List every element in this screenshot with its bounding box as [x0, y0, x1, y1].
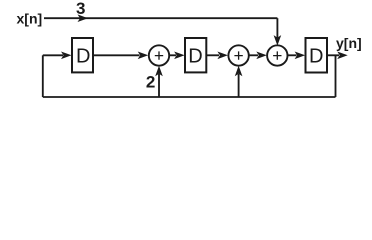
arrowhead into adder U1 bottom [155, 66, 163, 77]
wire vertical drop into adder U3 [276, 18, 278, 38]
wire top path from x[n] to corner [44, 17, 277, 19]
wire output junction down to feedback [335, 55, 337, 97]
wire bottom feedback line [43, 96, 336, 98]
wire into delay D1 [43, 54, 63, 56]
arrowhead into adder U3 [256, 52, 267, 60]
wire D2 to adder U2 [206, 54, 219, 56]
svg-text:x[n]: x[n] [17, 11, 43, 27]
svg-text:D: D [188, 46, 202, 68]
svg-text:D: D [76, 46, 90, 68]
delay block D3 [306, 38, 328, 73]
arrowhead on top wire [78, 14, 89, 22]
wire gain-2 tap up into adder U1 [158, 74, 160, 97]
wire D1 to adder U1 [93, 54, 140, 56]
svg-text:y[n]: y[n] [336, 35, 362, 51]
svg-text:3: 3 [76, 0, 85, 18]
arrowhead into adder U2 bottom [235, 66, 243, 77]
arrowhead into delay D2 [174, 52, 185, 60]
arrowhead into delay D3 [295, 52, 306, 60]
adder U3 [267, 45, 287, 65]
wire tap up into adder U2 [238, 74, 240, 97]
arrowhead into adder U2 [217, 52, 228, 60]
arrowhead into adder U3 top [274, 35, 282, 46]
wire adder U1 to delay D2 [169, 54, 176, 56]
arrowhead output y[n] [337, 52, 348, 60]
adder U1 [149, 45, 169, 65]
delay block D1 [72, 38, 93, 72]
svg-text:2: 2 [146, 72, 155, 91]
wire adder U3 to delay D3 [287, 54, 296, 56]
wire output from D3 [327, 54, 339, 56]
arrowhead into delay D1 [61, 52, 72, 60]
adder U2 [228, 45, 248, 65]
delay block D2 [185, 38, 206, 72]
arrowhead into adder U1 [138, 52, 149, 60]
svg-text:D: D [309, 46, 323, 68]
wire adder U2 to adder U3 [249, 54, 258, 56]
wire feedback left vertical [42, 55, 44, 97]
